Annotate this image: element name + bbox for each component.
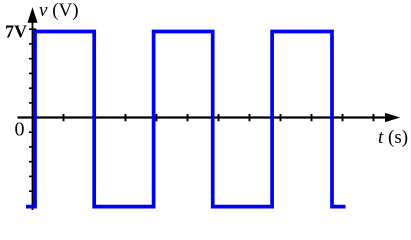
svg-text:0: 0	[15, 119, 25, 141]
vertical axis (v)	[27, 7, 37, 210]
horizontal axis ticks	[64, 114, 374, 121]
horizontal axis (t)	[18, 113, 401, 122]
svg-text:7V: 7V	[5, 22, 27, 42]
vertical axis ticks	[29, 29, 36, 206]
svg-text:t (s): t (s)	[378, 127, 408, 148]
square wave v(t)	[26, 32, 346, 207]
svg-text:v (V): v (V)	[39, 0, 79, 21]
